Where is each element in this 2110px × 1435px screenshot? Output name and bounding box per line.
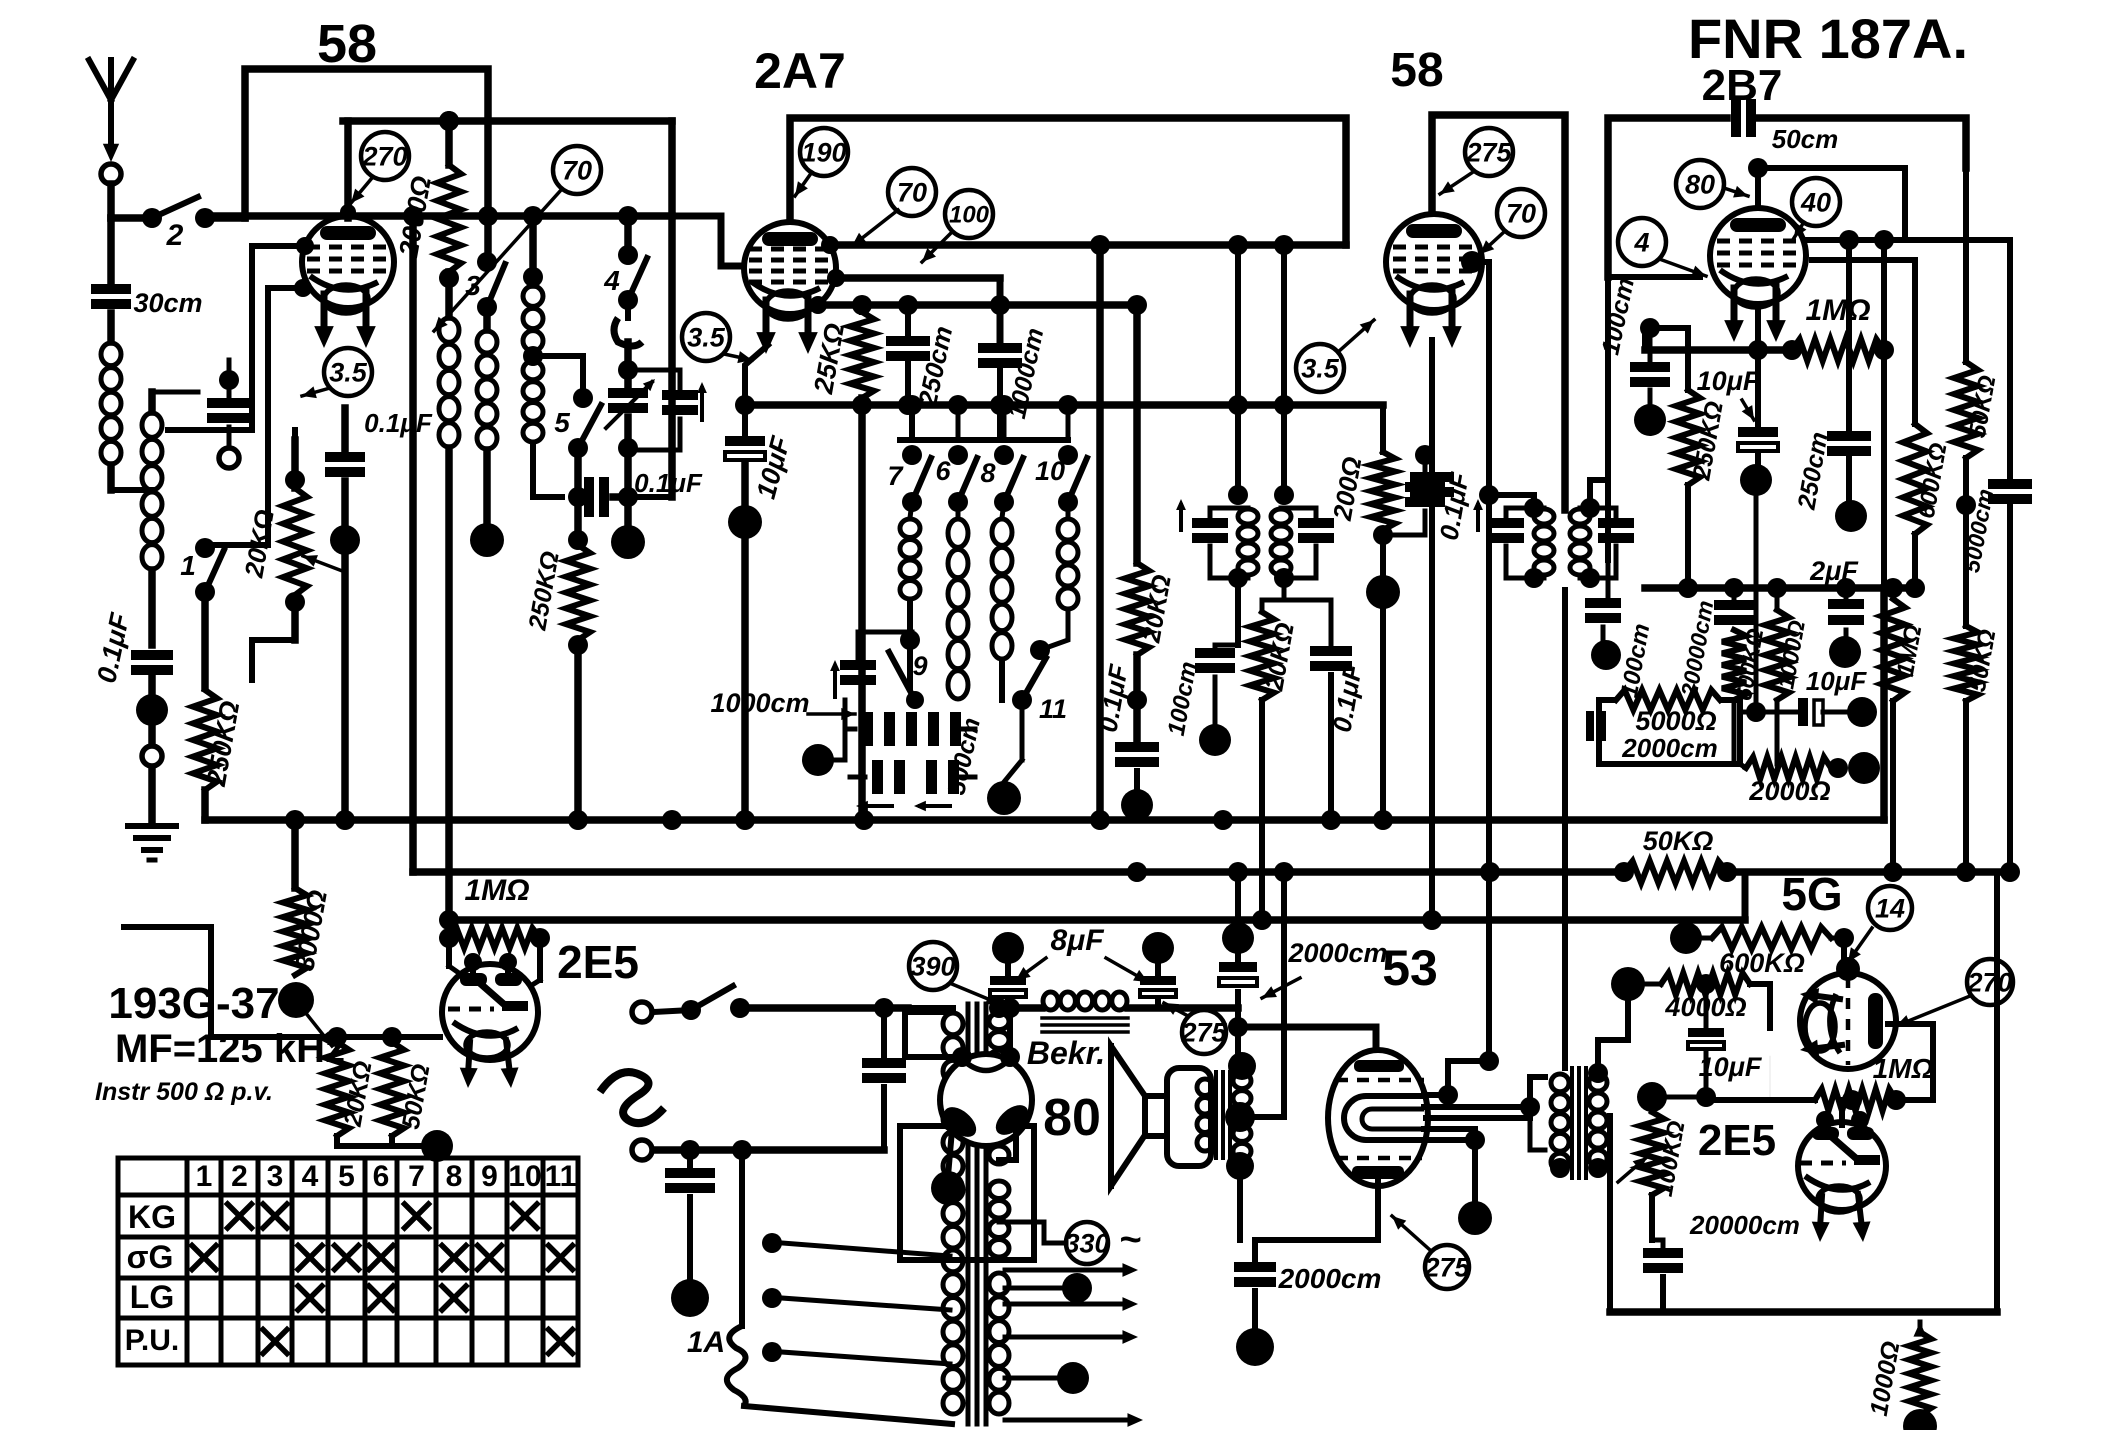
- label MF: [115, 1027, 345, 1071]
- svg-text:6: 6: [935, 456, 951, 486]
- wire: [111, 214, 152, 222]
- trimmer C1: [207, 360, 251, 468]
- wire: [107, 184, 115, 218]
- junction: [611, 525, 645, 559]
- svg-text:58: 58: [317, 14, 377, 74]
- padder trimmer: [830, 632, 912, 697]
- wire: [1755, 304, 1761, 350]
- junction: [1828, 752, 1880, 784]
- capacitor 50cm: [1731, 99, 1838, 154]
- wire: [1281, 405, 1287, 495]
- wire: [111, 465, 152, 490]
- pointer 190: [795, 172, 812, 196]
- speaker: [1111, 1046, 1211, 1186]
- elco 2μF: [1809, 556, 1864, 625]
- bus2 right: [1727, 868, 2010, 876]
- resistor 250KΩ osc: [523, 530, 590, 655]
- transformer core: [968, 1004, 986, 1424]
- junction: [671, 1279, 709, 1317]
- antenna: [89, 60, 133, 162]
- wire: [852, 395, 872, 820]
- resistor 2000Ω g: [1746, 757, 1831, 806]
- IFT1 trimmer arrow: [1176, 499, 1186, 530]
- label 2B7: [1702, 61, 1783, 110]
- resistor 1MΩ 5g: [1815, 1053, 1934, 1111]
- table X marks: [192, 1204, 573, 1354]
- wire: [1262, 578, 1284, 920]
- resistor 50KΩ r1: [1954, 168, 2001, 458]
- resistor 2000Ω: [393, 111, 461, 272]
- svg-text:20000cm: 20000cm: [1689, 1210, 1800, 1240]
- wire: [483, 450, 491, 522]
- IFT1 coil primary: [1238, 509, 1258, 575]
- wire: [201, 790, 209, 820]
- resistor 1MΩ: [1782, 294, 1894, 361]
- capacitor 30cm: [91, 284, 203, 318]
- coil F: [948, 502, 968, 699]
- junction: [1121, 771, 1153, 821]
- wire: [1775, 588, 1780, 764]
- pointer: [1794, 222, 1806, 238]
- resistor 20KΩ: [1125, 563, 1177, 655]
- circled 70 b: [888, 168, 936, 216]
- it dots: [1550, 1063, 1608, 1178]
- junction: [1634, 404, 1666, 436]
- padder arrows: [856, 801, 950, 812]
- circled 270 b: [1966, 959, 2013, 1005]
- terminal in2: [632, 1140, 652, 1160]
- IFT3 ties sec: [1580, 480, 1616, 588]
- pointer: [305, 1012, 332, 1046]
- elco 8uF right: [1140, 932, 1176, 1008]
- svg-text:70: 70: [1506, 199, 1536, 229]
- svg-text:40: 40: [1800, 188, 1831, 218]
- circled 275 out: [1423, 1245, 1470, 1289]
- wire: [1274, 235, 1294, 405]
- wire: [1240, 1020, 1284, 1240]
- svg-text:80: 80: [1685, 170, 1715, 200]
- pointer: [1440, 172, 1473, 194]
- svg-text:2000cm: 2000cm: [1621, 733, 1717, 763]
- svg-text:Instr 500 Ω p.v.: Instr 500 Ω p.v.: [95, 1078, 273, 1106]
- circled 3.5 b: [682, 313, 730, 361]
- svg-text:190: 190: [801, 138, 846, 168]
- wire rail: [124, 927, 440, 1047]
- table row labels: [125, 1199, 179, 1357]
- circled 80: [1676, 160, 1724, 208]
- wire: [999, 1128, 1016, 1160]
- svg-text:10μF: 10μF: [1697, 366, 1761, 396]
- wire: [1228, 862, 1248, 938]
- elco 8uF left: [990, 932, 1026, 1008]
- svg-text:KG: KG: [128, 1199, 176, 1235]
- junction: [1903, 1409, 1937, 1435]
- svg-text:10: 10: [1035, 456, 1065, 486]
- capacitor 0.1μF: [91, 609, 173, 685]
- pointer: [952, 984, 1000, 1004]
- wire: [859, 305, 865, 312]
- svg-text:70: 70: [897, 178, 927, 208]
- wire: [533, 443, 588, 507]
- junction: [1366, 575, 1400, 609]
- svg-text:8μF: 8μF: [1050, 924, 1104, 957]
- coil G: [992, 502, 1012, 659]
- transformer sec b: [989, 1086, 1009, 1164]
- svg-text:~: ~: [1119, 1219, 1141, 1261]
- svg-text:50cm: 50cm: [1772, 124, 1839, 154]
- wire: [1956, 458, 1976, 515]
- svg-text:9: 9: [481, 1160, 498, 1193]
- wire: [1429, 340, 1435, 920]
- svg-text:2E5: 2E5: [557, 936, 639, 988]
- svg-text:3.5: 3.5: [329, 358, 368, 388]
- label 500cm: [942, 715, 986, 797]
- pot 20KΩ: [238, 470, 345, 612]
- circled 70: [553, 146, 601, 194]
- resistor 1000Ω g: [1765, 610, 1810, 700]
- wire: [624, 497, 632, 528]
- svg-text:4: 4: [1633, 228, 1649, 258]
- resistor 3000Ω: [283, 888, 333, 975]
- wire: [1652, 1240, 1663, 1312]
- svg-text:2000cm: 2000cm: [1287, 938, 1387, 968]
- elco 10μF b: [1697, 366, 1778, 451]
- wire: [1530, 1077, 1545, 1107]
- resistor 100KΩ: [1640, 1112, 1691, 1199]
- wire: [1380, 592, 1386, 820]
- svg-text:80: 80: [1043, 1089, 1101, 1147]
- switch 4: [603, 245, 647, 310]
- capacitor pu: [665, 1150, 715, 1282]
- circled 4: [1618, 218, 1666, 266]
- svg-text:270: 270: [1966, 968, 2012, 998]
- switch 5: [554, 405, 601, 458]
- rail bottom: [337, 1136, 437, 1146]
- capacitor box: [1586, 711, 1606, 741]
- antenna terminal: [101, 164, 121, 184]
- svg-text:50KΩ: 50KΩ: [1643, 826, 1714, 856]
- svg-text:30cm: 30cm: [133, 288, 202, 318]
- wire x1100: [1090, 235, 1134, 820]
- wire: [1598, 1000, 1628, 1073]
- trimmer capacitor: [618, 360, 707, 450]
- frame 2e5b: [1649, 1195, 1655, 1240]
- wire: [445, 448, 453, 920]
- 53 leads: [1422, 1095, 1530, 1140]
- wire: [1472, 1140, 1478, 1205]
- wire: [201, 600, 209, 688]
- switch 7: [887, 445, 931, 512]
- svg-text:4: 4: [302, 1160, 319, 1193]
- wire: [1235, 578, 1241, 645]
- label 80: [1043, 1089, 1101, 1147]
- svg-text:10: 10: [508, 1160, 541, 1193]
- junction: [1637, 1082, 1716, 1112]
- wire: [341, 408, 349, 528]
- junction: [1670, 922, 1702, 954]
- wire: [1890, 701, 1896, 872]
- circled 330: [999, 1219, 1141, 1264]
- svg-text:2B7: 2B7: [1702, 61, 1783, 110]
- wire: [624, 216, 632, 255]
- label 58 b frame: [1432, 115, 1565, 510]
- svg-text:3: 3: [465, 270, 481, 301]
- wire y260b: [1812, 260, 1915, 424]
- svg-text:5G: 5G: [1781, 868, 1842, 920]
- switch 1: [180, 538, 224, 602]
- resistor 5000Ω: [1616, 690, 1720, 763]
- IFT1 cap primary: [1192, 508, 1228, 578]
- fuse 1A: [687, 1150, 952, 1424]
- IFT1 coil sec: [1271, 509, 1291, 575]
- pointer 3.5: [302, 386, 330, 398]
- svg-text:1MΩ: 1MΩ: [1805, 294, 1870, 327]
- wire: [1769, 1056, 1771, 1100]
- pointer: [1480, 232, 1504, 254]
- svg-text:2000Ω: 2000Ω: [1748, 776, 1830, 806]
- ground: [128, 826, 176, 860]
- svg-text:1000cm: 1000cm: [710, 688, 809, 718]
- svg-text:P.U.: P.U.: [125, 1324, 179, 1357]
- junction: [470, 523, 504, 557]
- junction: [278, 982, 314, 1018]
- transformer sec d: [989, 1273, 1009, 1414]
- IFT3 cap sec: [1598, 508, 1634, 578]
- wire: [1127, 655, 1147, 740]
- IFT3 coil sec: [1570, 509, 1590, 575]
- wire 3000 drop: [291, 820, 299, 888]
- wire y405: [745, 401, 1383, 409]
- junction dots y216: [403, 111, 638, 226]
- svg-text:600KΩ: 600KΩ: [1719, 948, 1805, 978]
- wire: [341, 552, 349, 820]
- switch 10: [1035, 445, 1087, 512]
- long wire y216: [206, 212, 672, 220]
- wire: [291, 430, 299, 488]
- svg-text:2: 2: [231, 1160, 248, 1193]
- svg-text:2000cm: 2000cm: [1278, 1263, 1382, 1294]
- frame bottom: [1610, 1116, 1997, 1312]
- field coil Bekr: [1027, 992, 1128, 1071]
- wire x1608: [1605, 277, 1611, 560]
- sec arrows: [1005, 1263, 1143, 1427]
- svg-text:2E5: 2E5: [1698, 1116, 1776, 1165]
- tube 53: [1328, 1050, 1428, 1186]
- wire: [999, 660, 1005, 700]
- output transformer: [1197, 1072, 1251, 1159]
- wire: [107, 218, 115, 284]
- pointer: [1724, 186, 1748, 198]
- wire: [1748, 158, 1768, 206]
- terminal: [142, 746, 162, 766]
- box 5000ohm: [1599, 700, 1740, 764]
- resistor 600KΩ r: [1903, 424, 1953, 534]
- bus1: [205, 588, 1884, 820]
- wire: [1994, 872, 2000, 1150]
- pointer: [1164, 1003, 1188, 1016]
- wire: [1839, 1100, 1845, 1125]
- table grid: [118, 1158, 578, 1365]
- wire: [1228, 235, 1248, 405]
- wire: [205, 214, 245, 222]
- rect 80 block: [900, 1126, 1034, 1260]
- tube 5G: [1800, 957, 1896, 1069]
- circled 275: [1465, 128, 1513, 176]
- svg-text:3.5: 3.5: [1301, 354, 1340, 384]
- resistor 1MΩ 2e5: [439, 874, 550, 948]
- wire x1137: [1133, 305, 1141, 563]
- wire: [902, 395, 1078, 440]
- capacitor 0.1μF: [1115, 742, 1159, 767]
- wire: [618, 417, 638, 497]
- svg-text:193G-37: 193G-37: [108, 979, 279, 1028]
- wire: [654, 1140, 884, 1160]
- wire tap: [533, 356, 593, 408]
- switch 3: [465, 252, 505, 317]
- junction: [1236, 1328, 1274, 1366]
- circled 100: [945, 190, 993, 238]
- svg-text:1MΩ: 1MΩ: [1873, 1053, 1934, 1084]
- svg-text:7: 7: [408, 1160, 425, 1193]
- svg-text:0.1μF: 0.1μF: [634, 468, 703, 498]
- padder caps row2: [850, 760, 975, 794]
- wire: [1274, 862, 1294, 1020]
- wire: [745, 345, 768, 436]
- circled 275 ps: [1180, 1010, 1227, 1054]
- wire: [148, 678, 156, 742]
- resistor 4000Ω: [1645, 973, 1750, 1022]
- switch 8: [980, 445, 1023, 512]
- svg-text:4: 4: [603, 265, 620, 296]
- svg-text:8: 8: [980, 458, 995, 488]
- switch 2: [142, 197, 215, 252]
- pointer: [1848, 928, 1872, 962]
- pointer: [1662, 260, 1706, 277]
- junction: [421, 1130, 453, 1162]
- resistor 600KΩ 5g: [1701, 927, 1854, 978]
- wire: [1846, 240, 1852, 502]
- capacitor 0.1μF d: [1410, 469, 1475, 542]
- coil L2: [142, 413, 162, 569]
- resistor 1000Ω v: [1865, 1322, 1931, 1418]
- tube 2E5 second: [1798, 1111, 1886, 1242]
- IFT3 coil primary: [1534, 509, 1554, 575]
- svg-text:330: 330: [1064, 1229, 1109, 1259]
- junction: [1611, 967, 1645, 1001]
- svg-text:390: 390: [910, 952, 955, 982]
- wire: [148, 768, 156, 820]
- circled 390: [909, 942, 957, 990]
- variable capacitor: [606, 379, 655, 428]
- trimmer blob: [614, 300, 642, 346]
- svg-text:70: 70: [562, 156, 592, 186]
- resistor 200Ω: [1327, 452, 1395, 530]
- resistor 20KΩ h: [325, 1042, 378, 1136]
- capacitor c200: [1383, 445, 1445, 535]
- svg-text:2μF: 2μF: [1809, 556, 1859, 586]
- junction: [1740, 464, 1772, 496]
- svg-text:58: 58: [1390, 44, 1443, 97]
- bus2: [413, 868, 1624, 876]
- wire: [574, 497, 582, 820]
- wire: [2007, 240, 2013, 872]
- wire: [148, 570, 156, 645]
- wire y240: [1806, 230, 2010, 250]
- tap dots: [762, 1233, 950, 1364]
- coil osc C upper: [523, 286, 543, 351]
- wire 58-frame: [245, 69, 488, 218]
- svg-text:11: 11: [545, 1160, 577, 1193]
- resistor 1MΩ r2: [1881, 599, 1927, 701]
- svg-text:10μF: 10μF: [1806, 666, 1868, 696]
- capacitor 20000cm g: [1676, 598, 1754, 699]
- pointer: [852, 210, 898, 246]
- wire grid cap: [340, 121, 356, 220]
- label 58: [317, 14, 377, 74]
- frame 2B7 left: [1608, 118, 1727, 277]
- circled 40: [1792, 178, 1840, 226]
- pointer: [922, 232, 952, 262]
- bus3: [449, 874, 1745, 920]
- wire tube left 2: [205, 279, 312, 545]
- vertical x1884: [1881, 240, 1887, 588]
- pointer 70: [434, 189, 562, 331]
- transformer sec a: [989, 1013, 1009, 1067]
- svg-text:5000Ω: 5000Ω: [1635, 706, 1716, 736]
- IFT1 ties sec: [1274, 485, 1316, 588]
- wire: [487, 216, 488, 330]
- wire: [449, 938, 540, 980]
- switch 9: [889, 651, 928, 709]
- table headers: [196, 1160, 577, 1193]
- frame 2B7 right: [1756, 118, 1966, 168]
- wire: [152, 392, 198, 412]
- resistor 50KΩ r2: [1954, 505, 2001, 701]
- wire: [948, 1130, 952, 1176]
- elco 10μF 5g: [1688, 1028, 1763, 1082]
- svg-text:MF=125 kHz: MF=125 kHz: [115, 1027, 345, 1071]
- svg-text:7: 7: [887, 461, 904, 491]
- resistor 600KΩ g2: [1722, 626, 1768, 702]
- label 53: [1382, 940, 1438, 996]
- circled 14: [1868, 886, 1912, 930]
- capacitor 250cm: [886, 323, 958, 409]
- frame first stage: [343, 117, 672, 125]
- capacitor 0.1μF osc: [584, 468, 703, 517]
- switch 11: [1012, 640, 1067, 724]
- wire: [1685, 485, 1691, 588]
- bus3 dots: [439, 910, 1442, 930]
- wire: [1963, 701, 1969, 872]
- wire: [624, 342, 632, 386]
- IFT1 ties: [1210, 485, 1248, 588]
- rail y440: [900, 437, 1068, 443]
- junction: [987, 760, 1022, 815]
- transformer sec c: [989, 1181, 1009, 1257]
- pointer: [1338, 320, 1374, 352]
- wire x1490: [1486, 595, 1492, 1061]
- resistor 20KΩ b: [1250, 612, 1300, 700]
- svg-text:275: 275: [1423, 1253, 1470, 1283]
- pointer: [724, 351, 752, 363]
- label FNR 187A: [1688, 7, 1968, 70]
- switch mains: [681, 986, 750, 1020]
- coil E: [900, 502, 920, 599]
- elco 10μF h: [1798, 666, 1867, 726]
- svg-text:0.1μF: 0.1μF: [364, 408, 433, 438]
- IFT3 ties: [1489, 495, 1544, 588]
- IFT3 trimmer arrow: [1473, 499, 1483, 530]
